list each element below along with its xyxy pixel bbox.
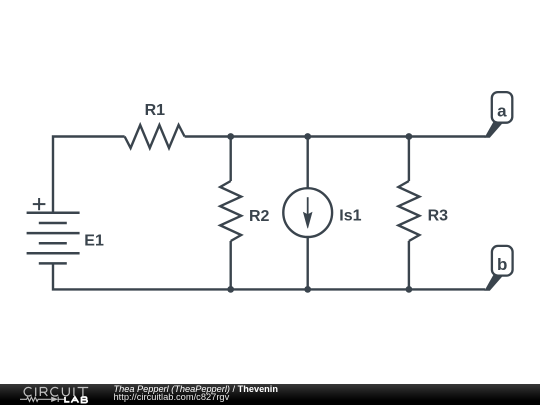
footer credit text [113,383,115,385]
current source Is1 arrow [303,197,313,228]
junction dot: top net at Is1 [304,133,311,140]
wire: Is1 to bottom net [307,237,309,290]
resistor R2 [220,181,241,241]
svg-text:E1: E1 [84,233,104,250]
terminal b flag tail [484,275,504,291]
svg-text:Is1: Is1 [339,207,361,224]
resistor R1 [125,125,185,148]
footer bar [0,384,540,405]
wire: R3 to bottom net [408,241,410,289]
resistor R3 [398,181,419,241]
battery E1 plus sign [33,198,46,210]
wire: battery E1 negative terminal down and right along bottom net to terminal b [53,263,485,289]
wire: battery E1 positive terminal up and right to R1 [53,137,125,213]
svg-text:b: b [497,255,507,274]
wire: R2 to bottom net [229,241,231,289]
CircuitLab logo [0,384,100,405]
svg-text:R1: R1 [145,102,166,119]
wire: R1 to terminal a (top net) [185,135,486,137]
terminal a flag tail [484,122,504,138]
battery E1 plates [27,213,80,264]
junction dot: bottom net at R3 [406,286,413,293]
svg-text:a: a [497,101,507,120]
logo word CIRCUIT [24,387,88,396]
logo word LAB [65,397,87,403]
svg-text:R2: R2 [249,208,270,225]
junction dot: top net at R2 [227,133,234,140]
svg-text:R3: R3 [428,208,449,225]
wire: top net down to R3 [408,137,410,182]
terminal a flag box [492,92,513,123]
logo resistor squiggle and diode [20,397,64,402]
junction dot: bottom net at Is1 [304,286,311,293]
junction dot: top net at R3 [406,133,413,140]
junction dot: bottom net at R2 [227,286,234,293]
wire: top net down to Is1 [307,137,309,189]
terminal b flag box [492,246,513,276]
wire: top net down to R2 [229,137,231,182]
current source Is1 circle [283,188,332,237]
